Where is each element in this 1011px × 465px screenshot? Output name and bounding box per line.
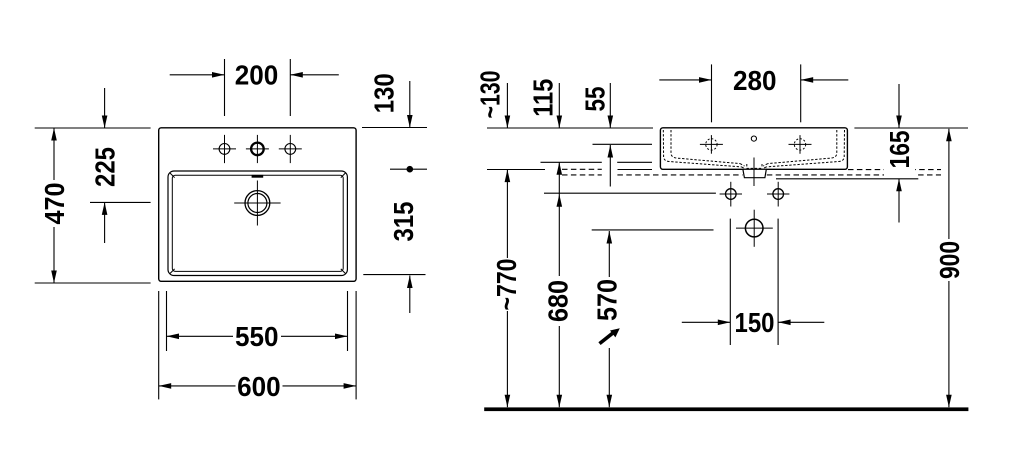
svg-text:200: 200 — [235, 60, 279, 91]
svg-text:225: 225 — [90, 147, 121, 187]
svg-text:680: 680 — [542, 280, 573, 322]
svg-text:115: 115 — [528, 79, 559, 117]
svg-text:150: 150 — [735, 307, 775, 338]
svg-text:55: 55 — [580, 87, 611, 112]
svg-text:600: 600 — [237, 371, 281, 402]
svg-text:280: 280 — [733, 65, 777, 96]
svg-text:550: 550 — [235, 321, 279, 352]
svg-text:130: 130 — [369, 73, 400, 113]
svg-text:470: 470 — [39, 183, 70, 225]
svg-text:165: 165 — [884, 130, 915, 168]
svg-text:~770: ~770 — [491, 259, 522, 311]
svg-text:900: 900 — [934, 241, 965, 279]
svg-text:570: 570 — [591, 279, 622, 321]
svg-text:~130: ~130 — [475, 71, 506, 119]
svg-text:315: 315 — [388, 202, 419, 242]
